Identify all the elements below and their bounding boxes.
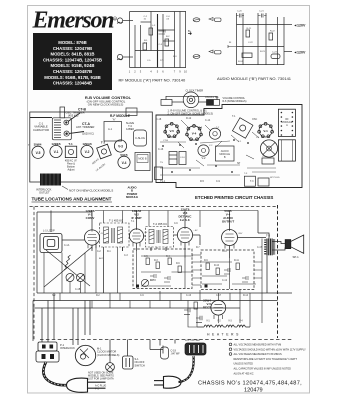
node grid drops <box>50 211 52 233</box>
wire: IF feed verticals <box>95 211 258 228</box>
module key squares <box>136 285 139 288</box>
svg-text:MOD B: MOD B <box>138 158 147 161</box>
svg-text:-.6V: -.6V <box>194 230 199 232</box>
capacitor C-13 <box>242 276 248 282</box>
svg-text:IF AMP: IF AMP <box>131 216 141 220</box>
svg-text:ETCHED PRINTED CIRCUIT CHASSIS: ETCHED PRINTED CIRCUIT CHASSIS <box>195 195 273 200</box>
wire: RF vertical 5 (heavy) <box>157 14 159 68</box>
wire: RF vertical 1 <box>129 12 131 68</box>
svg-text:C-21: C-21 <box>259 11 265 13</box>
svg-text:C-20: C-20 <box>237 11 243 13</box>
wire: audio vertical 1 <box>236 13 238 65</box>
resistor R-4 <box>168 258 171 265</box>
tube V-5 35W4 <box>203 299 211 310</box>
tube V-1 12BE6 <box>85 209 95 220</box>
RF module footprint box <box>104 122 122 142</box>
svg-text:V-1: V-1 <box>54 150 59 154</box>
switch S-1 <box>123 356 134 369</box>
svg-text:“A”: “A” <box>112 117 116 121</box>
wire: RF vertical 7 <box>174 12 176 68</box>
wire: RF bus mid <box>135 50 175 52</box>
svg-text:C-23: C-23 <box>272 52 278 54</box>
left area wires to interlock <box>42 293 90 345</box>
notes block <box>229 343 306 375</box>
svg-text:Adjust: Adjust <box>68 169 75 172</box>
RF module right-hand terminals <box>188 18 221 59</box>
RF module footprint (pcb) <box>278 109 295 136</box>
module B dashed outline <box>201 250 254 290</box>
dial pointer line <box>30 117 52 119</box>
wire heater rails <box>188 301 250 328</box>
svg-text:V-1: V-1 <box>263 129 268 133</box>
resistor R-9 <box>206 263 209 270</box>
svg-text:C-16: C-16 <box>186 295 192 297</box>
svg-text:12BE6: 12BE6 <box>126 127 134 131</box>
svg-text:V-4: V-4 <box>122 161 127 165</box>
terminal strip left <box>155 167 163 180</box>
audio module component labels <box>229 11 278 64</box>
socket V-4 (pcb) <box>186 125 203 141</box>
connector tab lower <box>209 50 213 53</box>
svg-text:120479: 120479 <box>244 388 263 394</box>
capacitor C-7 <box>150 274 156 280</box>
wire: audio vertical 5 <box>277 17 279 65</box>
svg-text:C-1B: C-1B <box>75 289 81 291</box>
clock switch box <box>161 100 172 106</box>
chassis dashed boundary top <box>30 206 278 208</box>
leader arrows on pcb <box>178 120 259 166</box>
svg-text:R-11: R-11 <box>234 260 240 262</box>
misc pcb pads <box>162 139 249 173</box>
svg-text:C-16: C-16 <box>180 157 186 159</box>
pointer to outlet <box>62 186 68 190</box>
socket V-1 (pcb) <box>258 122 274 137</box>
socket V-5 (pcb) <box>164 122 180 137</box>
socket T-2 (pcb) <box>209 128 220 139</box>
label slave/tuner <box>126 121 135 131</box>
line cord left <box>43 362 66 385</box>
svg-text:V-2: V-2 <box>202 156 206 160</box>
svg-text:R-12: R-12 <box>186 117 192 120</box>
svg-text:OUTLET: OUTLET <box>39 191 50 195</box>
trademark <box>113 17 116 20</box>
pcb trace lines <box>160 141 276 175</box>
connector tab upper <box>209 18 213 21</box>
resistor R-22 <box>269 33 273 40</box>
RF module pin numbers <box>129 70 188 74</box>
condenser C-19 <box>161 347 169 359</box>
rectifier wires <box>218 293 262 323</box>
interlock connector P-1 <box>36 342 59 362</box>
svg-text:VOLTAGES SHOULD HOLD WITHIN ±1: VOLTAGES SHOULD HOLD WITHIN ±10% WITH 11… <box>234 348 307 351</box>
svg-text:AVC: AVC <box>99 257 104 260</box>
capacitor C-17 <box>196 316 202 323</box>
bus drops <box>60 290 240 308</box>
svg-text:RF MODULE (“A”) PART NO. 73014: RF MODULE (“A”) PART NO. 730140 <box>119 78 186 83</box>
wires module internals <box>141 256 256 286</box>
svg-text:A-1: A-1 <box>108 127 113 131</box>
svg-text:MODULE: MODULE <box>126 195 138 199</box>
extra component labels <box>52 221 263 297</box>
plug right <box>154 376 181 388</box>
model/chassis info box <box>33 33 112 90</box>
tuning shaft <box>60 107 65 118</box>
input lug <box>228 45 236 48</box>
svg-text:V-4: V-4 <box>192 132 197 136</box>
svg-text:SP-1: SP-1 <box>293 255 300 259</box>
C-SLUG coil <box>134 130 147 146</box>
wire loop to switches <box>166 96 217 100</box>
heater labels <box>206 321 243 323</box>
svg-text:(1620 KC): (1620 KC) <box>82 132 94 136</box>
svg-text:35W4: 35W4 <box>34 142 42 146</box>
dial cord diagonal <box>44 247 92 287</box>
tiny value labels <box>144 256 240 282</box>
svg-text:T-1 455 KC: T-1 455 KC <box>109 219 123 223</box>
svg-text:CHASSIS: 120474B, 120475B: CHASSIS: 120474B, 120475B <box>43 57 102 62</box>
labels sprinkled on pcb <box>156 115 257 183</box>
wire: left rail <box>36 212 38 293</box>
module A dashed outline <box>133 249 192 289</box>
wire: RF vertical 9 <box>179 12 181 68</box>
resistor R-3 <box>156 262 159 269</box>
wires bottom mid <box>110 340 175 363</box>
svg-text:85V: 85V <box>239 233 243 235</box>
svg-text:CT-A: CT-A <box>197 126 203 129</box>
audio power module footprint (pcb) <box>278 140 295 161</box>
svg-text:C-15: C-15 <box>257 247 263 249</box>
tube V-3 socket <box>114 140 126 152</box>
wire: RF vertical 6 <box>162 14 164 68</box>
svg-text:V-3: V-3 <box>118 145 123 149</box>
svg-text:CLOCK TIMER: CLOCK TIMER <box>186 89 204 93</box>
clock motor M-1 <box>75 345 95 365</box>
svg-text:MODELS: 916B, 917B, 918B: MODELS: 916B, 917B, 918B <box>44 75 101 80</box>
svg-text:MODEL: 876B: MODEL: 876B <box>58 40 86 45</box>
variable capacitor C-1 body <box>52 107 84 140</box>
svg-text:-1V: -1V <box>100 233 104 235</box>
svg-text:C-16: C-16 <box>158 148 164 151</box>
heater string coils <box>197 325 250 327</box>
resistor R-21 <box>246 30 250 37</box>
svg-text:C-22: C-22 <box>248 42 254 44</box>
wire: AVC bus top <box>37 211 92 213</box>
loop antenna L-1 <box>40 234 62 253</box>
svg-text:ON-OFF S-1: ON-OFF S-1 <box>205 96 219 99</box>
wire: RF bus bottom <box>130 67 187 69</box>
chassis dashed boundary left <box>33 207 35 340</box>
svg-text:T-1: T-1 <box>68 142 73 146</box>
svg-text:A.C. OUTLET: A.C. OUTLET <box>185 339 201 342</box>
chassis outline <box>30 112 153 182</box>
on-off switch bar <box>207 100 214 106</box>
trimmer screw CT-A <box>64 131 69 136</box>
wire: RF vertical 4 <box>150 12 152 51</box>
svg-text:INTERLOCK: INTERLOCK <box>60 346 75 350</box>
wire: RF vertical 3 <box>140 25 142 68</box>
svg-text:SP PLUG: SP PLUG <box>270 177 280 179</box>
line cord right <box>179 356 194 382</box>
volume control R-8 <box>141 279 148 286</box>
svg-text:L-1 LOOP: L-1 LOOP <box>43 229 55 233</box>
wires tube links <box>62 235 266 293</box>
speaker SP-1 <box>285 235 304 253</box>
svg-text:AUDIO MODULE (“B”) PART NO. 73: AUDIO MODULE (“B”) PART NO. 730141 <box>217 76 292 81</box>
antenna input coil L-2 <box>117 54 122 59</box>
svg-text:C-18: C-18 <box>156 118 162 121</box>
svg-text:Emerson: Emerson <box>32 8 115 34</box>
voltage callouts <box>99 230 243 260</box>
svg-text:OUTPUT: OUTPUT <box>222 220 235 224</box>
svg-text:SP: SP <box>237 162 241 165</box>
pointer line CT-B <box>68 113 80 122</box>
svg-text:C-14: C-14 <box>205 119 211 122</box>
svg-text:ALL VOLTAGES MEASURED WITH VTV: ALL VOLTAGES MEASURED WITH VTVM <box>234 344 282 347</box>
svg-text:C-1A: C-1A <box>64 244 70 247</box>
tube V-4 50C5 <box>222 209 235 224</box>
svg-text:C-12: C-12 <box>222 280 228 282</box>
tube V-2 12BA6 <box>131 209 141 220</box>
pcb misc tiny labels <box>160 126 280 179</box>
wire: audio vertical 3 <box>257 13 259 65</box>
svg-text:R-24: R-24 <box>238 61 244 63</box>
output transformer footprint <box>244 176 255 186</box>
wire: audio vertical 6 <box>283 17 285 65</box>
bus line AC <box>33 307 240 309</box>
svg-text:B+: B+ <box>188 29 192 33</box>
chassis ground dashed line <box>40 339 292 341</box>
tube pin stubs and drops through modules <box>88 242 234 320</box>
wire: audio vertical 2 <box>242 13 244 65</box>
resistor R-11 <box>236 263 239 270</box>
bus line B- <box>33 300 278 302</box>
wire: audio bus bottom <box>237 64 285 66</box>
dial cord diagonal 2 <box>46 250 90 286</box>
electrolytic C-16 rects <box>169 152 186 165</box>
svg-text:MODELS: 915B, 924B: MODELS: 915B, 924B <box>51 63 95 68</box>
svg-text:NOT ON NEW-CLOCK MODELS: NOT ON NEW-CLOCK MODELS <box>69 189 113 193</box>
label C-1 <box>33 122 49 132</box>
svg-text:HEATERS: HEATERS <box>207 333 241 337</box>
svg-text:SWITCH: SWITCH <box>135 363 145 367</box>
svg-text:UNLESS NOTED: UNLESS NOTED <box>234 363 254 366</box>
svg-text:1st A.F.: 1st A.F. <box>180 218 191 222</box>
svg-text:ALL VOLTAGES MEASURED TO B MIN: ALL VOLTAGES MEASURED TO B MINUS <box>234 353 283 356</box>
svg-text:ANT. TRIMMER: ANT. TRIMMER <box>76 125 95 129</box>
tuning gang C-1B <box>77 274 85 282</box>
resistor R-13 <box>194 302 197 309</box>
svg-text:LIST FOR LAMP DATA: LIST FOR LAMP DATA <box>88 378 114 381</box>
wire: RF inner horizontal 3 <box>141 21 152 23</box>
svg-text:V-5: V-5 <box>169 129 174 133</box>
svg-text:R-8 (SOME MODELS): R-8 (SOME MODELS) <box>223 100 247 103</box>
bus line B+ <box>37 292 292 294</box>
svg-text:R-5: R-5 <box>200 180 205 183</box>
interlock outlet (black) <box>40 174 61 186</box>
wires to speaker <box>258 233 285 293</box>
svg-text:CHASSIS: 120487B: CHASSIS: 120487B <box>53 69 92 74</box>
svg-text:ALL CAPACITOR VALUES IN MF UNL: ALL CAPACITOR VALUES IN MF UNLESS NOTED <box>234 368 292 371</box>
wire: left rail lower <box>32 301 34 342</box>
svg-text:T-2 455 KC: T-2 455 KC <box>153 222 167 226</box>
svg-text:ON NEW-CLOCK MODELS): ON NEW-CLOCK MODELS) <box>88 103 124 107</box>
svg-text:T-3: T-3 <box>266 234 270 238</box>
wire: 120V stub upper <box>284 24 292 26</box>
resistor R-23 <box>242 53 252 57</box>
terminal lug CW lower <box>193 55 200 59</box>
svg-text:◄120V: ◄120V <box>294 50 307 54</box>
wire: RF inner horizontal 1 <box>158 29 175 31</box>
svg-text:CHASSIS: 120484B: CHASSIS: 120484B <box>53 81 92 86</box>
plug left <box>67 378 106 392</box>
svg-text:R-10: R-10 <box>214 265 220 267</box>
svg-text:R-21: R-21 <box>247 28 253 30</box>
AC outlet rear <box>185 343 206 355</box>
capacitor C-4 <box>159 30 166 35</box>
resistor R-6 <box>178 266 181 273</box>
svg-text:TS-1: TS-1 <box>160 180 166 183</box>
antenna input coil L-1 <box>117 18 122 23</box>
label audio B power module <box>126 186 138 200</box>
svg-text:P-1: P-1 <box>95 387 99 390</box>
PCB outline <box>156 105 302 188</box>
svg-text:OSC: OSC <box>252 118 257 121</box>
audio module footprint box <box>135 153 150 171</box>
terminal lug CW upper <box>193 18 200 22</box>
tube V-3 12AT6 <box>179 208 193 223</box>
svg-text:MODELS: 841B, 881B: MODELS: 841B, 881B <box>51 52 95 57</box>
clock switch box on top edge <box>126 108 137 116</box>
svg-text:CAPACITOR: CAPACITOR <box>33 128 49 132</box>
wire: 120V stub lower <box>284 51 292 53</box>
svg-text:V-2: V-2 <box>85 150 90 154</box>
svg-text:ALIGN AT 455 KC: ALIGN AT 455 KC <box>234 372 254 375</box>
wire: RF inner horizontal 2 <box>163 40 175 42</box>
capacitor C-16 <box>184 308 190 315</box>
tuning gang C-1A <box>66 274 74 282</box>
svg-text:R-22: R-22 <box>270 31 276 33</box>
svg-text:.047 MF: .047 MF <box>171 353 181 356</box>
resistor R-1 <box>143 43 147 50</box>
pointer line CT-A <box>70 132 85 134</box>
svg-text:C-17: C-17 <box>216 295 222 297</box>
resistor R-2 <box>165 39 169 46</box>
svg-text:TUBE LOCATIONS AND ALIGNMENT: TUBE LOCATIONS AND ALIGNMENT <box>32 197 112 202</box>
svg-text:V-5: V-5 <box>36 151 41 155</box>
wire: RF bus top <box>130 11 187 13</box>
svg-text:(455 KC): (455 KC) <box>68 114 79 118</box>
wire: audio bus top <box>237 24 285 26</box>
svg-text:(CLOCK MODELS): (CLOCK MODELS) <box>97 353 119 357</box>
svg-text:CHASSIS: 120479B: CHASSIS: 120479B <box>53 46 92 51</box>
IF transformer footprint (tilted) <box>232 118 252 138</box>
capacitor C-20 <box>237 14 245 18</box>
resistor R-10 <box>216 268 219 275</box>
pilot lamp PL-1 <box>106 363 115 372</box>
trimmer screw CT-B <box>64 120 69 125</box>
svg-text:C-9: C-9 <box>216 180 221 183</box>
wire: audio vertical 4 <box>265 13 267 65</box>
resistor R-3 <box>149 28 153 35</box>
volume control R-8 knob <box>161 92 220 108</box>
capacitor C-21 <box>258 14 267 18</box>
capacitor C-12 <box>224 268 230 274</box>
wires between modules <box>44 239 262 294</box>
IF transformer T-1 <box>100 223 130 247</box>
RF module component labels <box>144 16 178 62</box>
svg-text:C-SLUG: C-SLUG <box>135 136 145 140</box>
svg-text:118V: 118V <box>222 251 227 253</box>
speaker plug footprint <box>262 158 274 164</box>
capacitor C-8 <box>164 276 170 282</box>
svg-text:CHASSIS NO’s 120474,475,484,4: CHASSIS NO’s 120474,475,484,487, <box>198 381 302 387</box>
svg-text:R-23: R-23 <box>260 51 266 53</box>
svg-text:◄120V: ◄120V <box>294 23 307 27</box>
resistor R-1 diagonal zigzag <box>64 255 71 270</box>
audio module footprint (pcb) <box>216 146 235 161</box>
B+ feed arrow <box>188 33 192 35</box>
wire: audio bus mid <box>237 46 285 48</box>
svg-text:CONV: CONV <box>86 216 95 220</box>
IF transformer T-2 <box>146 227 174 248</box>
svg-text:T-2: T-2 <box>101 141 106 145</box>
svg-text:R-14: R-14 <box>243 295 249 297</box>
wire: RF vertical 2 <box>134 25 136 68</box>
note under T-1 <box>65 160 78 172</box>
wire: RF vertical 10 <box>185 12 187 68</box>
socket V-2 (pcb) <box>198 145 209 156</box>
svg-text:CT-B: CT-B <box>163 140 169 142</box>
capacitor C-23 <box>271 54 280 59</box>
svg-text:RESISTORS ARE 1/2 WATT 10% TOL: RESISTORS ARE 1/2 WATT 10% TOLERANCE ½ W… <box>234 357 298 361</box>
resistor R-2 <box>146 258 149 265</box>
gang capacitor C-1 (pcb) <box>260 140 277 157</box>
svg-text:R: R <box>114 17 116 21</box>
chassis boundary dashed vertical <box>277 205 279 338</box>
svg-text:RECT: RECT <box>203 306 211 310</box>
